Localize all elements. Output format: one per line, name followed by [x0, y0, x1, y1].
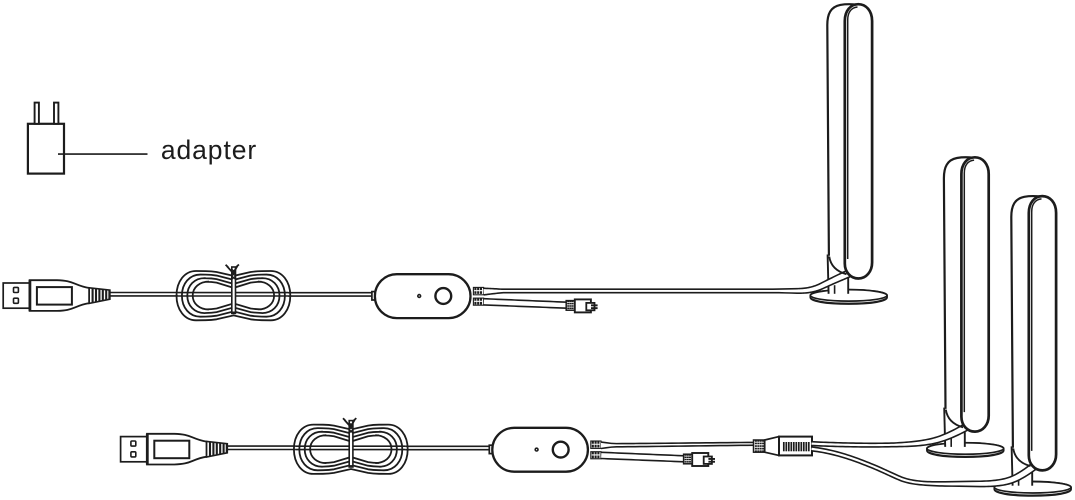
pigtail connector 1: pins	[591, 304, 598, 309]
coiled cable bundle 2	[294, 425, 408, 474]
light bar 1: bar body	[827, 4, 872, 278]
light bar 1: oval base	[810, 290, 887, 304]
adapter leader line	[58, 153, 148, 155]
USB plug 2: metal shell	[121, 437, 147, 462]
light bar 3: bar body	[1011, 196, 1056, 470]
cord from USB plug 1 to coil 1	[110, 293, 178, 296]
controller pod 1: body	[375, 274, 471, 318]
controller pod 2: outlet strain reliefs	[591, 441, 601, 459]
main cord from controller 1 to light bar 1	[483, 267, 855, 295]
splitter connector: crimp block	[754, 440, 765, 452]
controller pod 1: inlet nub	[372, 292, 375, 300]
coiled cable bundle 1	[177, 271, 291, 320]
light bar 2: mounting bracket	[946, 410, 963, 428]
coil wrap tie 1	[226, 265, 239, 314]
cord from coil 1 to controller 1	[288, 293, 372, 296]
power adapter	[28, 103, 64, 174]
controller pod 1: button	[435, 288, 451, 304]
USB plug 2: plastic body	[147, 434, 207, 465]
pigtail connector 2: housing	[692, 453, 712, 466]
controller pod 2: LED dot	[535, 448, 538, 451]
main cord from controller 2 to splitter	[601, 441, 755, 449]
light bar 3: stand stem	[1012, 446, 1033, 485]
cord from coil 2 to controller 2	[405, 446, 489, 449]
USB plug 1: strain-relief ribs	[89, 288, 110, 304]
USB plug 2: strain-relief ribs	[207, 441, 228, 457]
light bar 1: stand stem	[828, 255, 849, 294]
controller pod 1: outlet strain reliefs	[473, 287, 483, 305]
branch cord to pigtail connector 1	[484, 298, 568, 309]
cord from splitter to light bar 2	[811, 421, 972, 448]
light bar 2: oval base	[927, 443, 1004, 457]
light bar 2: stand stem	[944, 408, 965, 447]
cord crossing coil 1	[178, 293, 288, 296]
svg-text:adapter: adapter	[161, 135, 257, 165]
coil wrap tie 2	[343, 418, 356, 467]
light bar 2: bar body	[944, 157, 989, 431]
cord from splitter to light bar 3	[811, 446, 1040, 487]
splitter connector: housing with pins	[779, 437, 812, 456]
controller pod 2: body	[492, 428, 588, 472]
pigtail connector 2: pins	[708, 458, 715, 463]
light bar 3: mounting bracket	[1013, 448, 1030, 466]
branch cord to pigtail connector 2	[601, 452, 685, 463]
controller pod 2: inlet nub	[489, 445, 492, 453]
pigtail connector 1: housing	[575, 299, 595, 312]
cord from USB plug 2 to coil 2	[227, 446, 295, 449]
controller pod 2: button	[553, 442, 569, 458]
light bar 3: oval base	[994, 482, 1071, 496]
USB plug 1: plastic body	[30, 280, 90, 311]
splitter connector: tapered neck	[765, 437, 779, 456]
cord crossing coil 2	[295, 446, 405, 449]
pigtail connector 2: crimp sleeve	[684, 454, 693, 464]
USB plug 1: metal shell	[3, 283, 29, 308]
light bar 1: mounting bracket	[829, 257, 846, 275]
pigtail connector 1: crimp sleeve	[566, 301, 575, 311]
controller pod 1: LED dot	[418, 295, 421, 298]
